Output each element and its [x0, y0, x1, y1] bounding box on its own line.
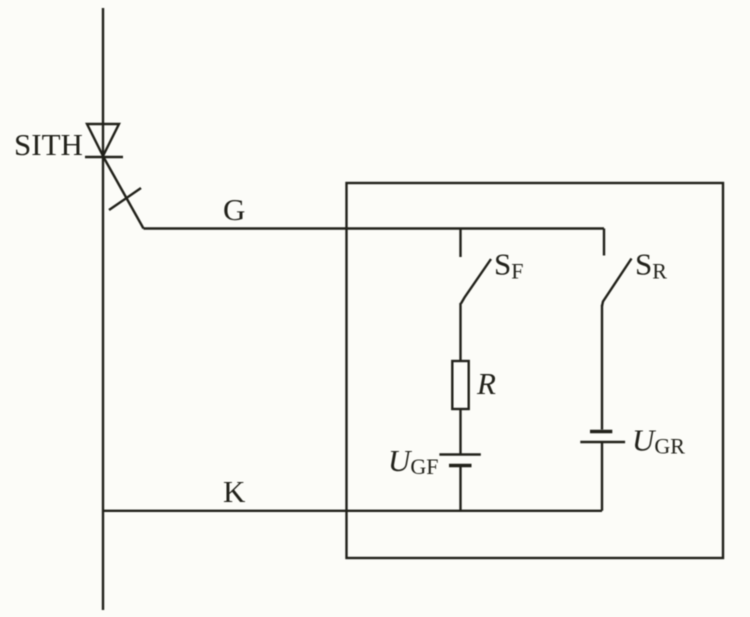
wire battery U_GF to K	[459, 467, 461, 511]
svg-text:UGR: UGR	[632, 423, 685, 459]
svg-text:G: G	[223, 192, 245, 227]
node stub S_R top	[603, 229, 605, 256]
gate lead diagonal	[104, 158, 144, 229]
svg-text:SITH: SITH	[14, 127, 83, 162]
svg-text:UGF: UGF	[388, 443, 439, 479]
switch S_R blade	[602, 259, 632, 307]
wire resistor to battery U_GF	[459, 409, 461, 454]
wire: main anode-cathode vertical line	[102, 8, 104, 610]
gate tick mark	[109, 188, 141, 210]
node stub S_F top	[459, 229, 461, 257]
svg-text:SR: SR	[635, 247, 667, 284]
wire G horizontal	[144, 227, 605, 229]
svg-text:R: R	[476, 366, 496, 401]
svg-text:SF: SF	[494, 247, 524, 284]
battery U_GR long plate	[580, 441, 625, 443]
wire K horizontal	[103, 510, 602, 512]
wire S_F to resistor	[459, 303, 461, 361]
box gate drive unit	[347, 183, 724, 558]
battery U_GR short plate	[590, 430, 612, 433]
thyristor SITH triangle	[87, 124, 119, 156]
wire S_R to battery U_GR	[601, 305, 603, 430]
switch S_F blade	[461, 259, 491, 304]
resistor R	[452, 361, 468, 409]
svg-text:K: K	[223, 474, 246, 509]
battery U_GF long plate	[439, 453, 480, 455]
cathode bar	[85, 156, 123, 158]
battery U_GF short plate	[449, 464, 472, 467]
wire battery U_GR to K	[601, 443, 603, 511]
